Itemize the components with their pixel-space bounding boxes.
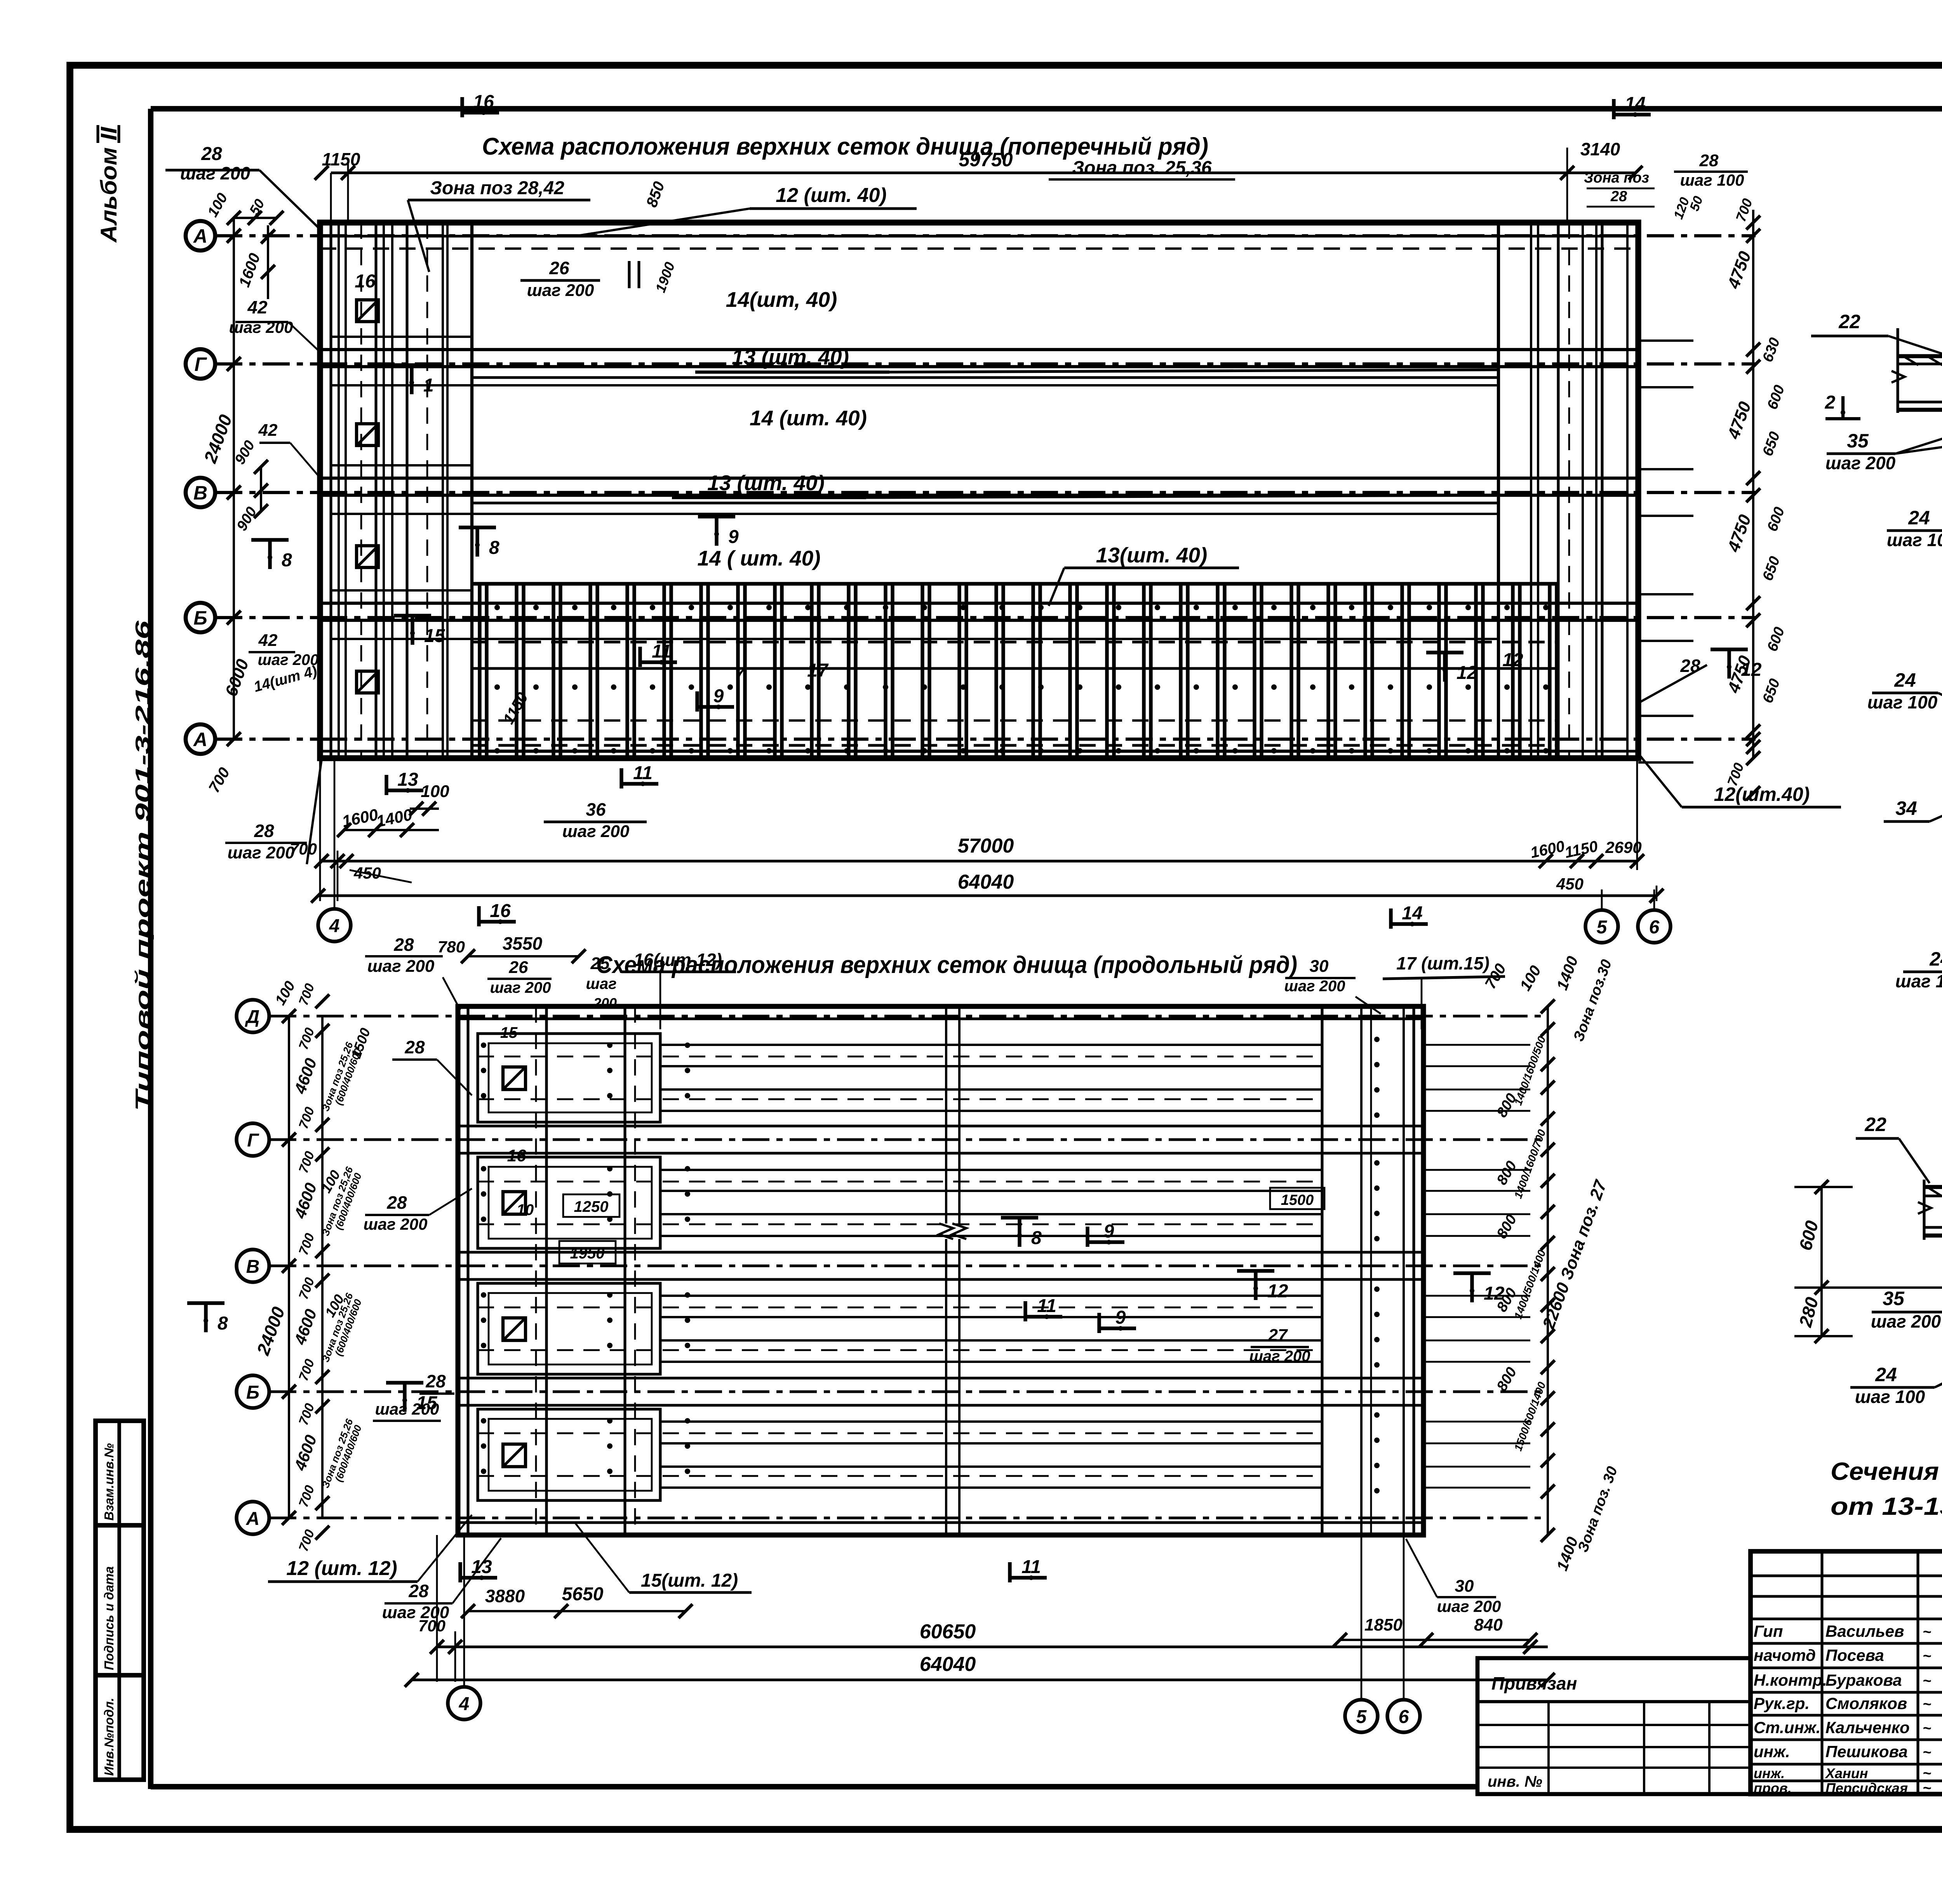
svg-text:11: 11 [652,641,671,662]
svg-text:28: 28 [425,1371,446,1391]
svg-text:3140: 3140 [1580,139,1620,159]
svg-text:Схема расположения верхних: Схема расположения верхних сеток днища (… [482,133,1208,160]
svg-text:28: 28 [1699,151,1719,170]
svg-text:В: В [193,482,207,504]
svg-text:начотд: начотд [1754,1646,1816,1664]
svg-text:14: 14 [1402,903,1422,924]
svg-text:Д: Д [245,1007,260,1027]
svg-text:13(шт. 40): 13(шт. 40) [1096,543,1208,567]
svg-text:5: 5 [1356,1707,1367,1727]
svg-text:5650: 5650 [562,1584,604,1605]
svg-text:1: 1 [423,375,434,396]
svg-text:700: 700 [290,840,317,858]
svg-text:13: 13 [471,1557,492,1577]
svg-text:~: ~ [1923,1744,1931,1761]
svg-text:42: 42 [258,631,278,650]
svg-text:57000: 57000 [958,835,1014,857]
svg-text:14 ( шт. 40): 14 ( шт. 40) [697,546,820,570]
svg-text:шаг 200: шаг 200 [228,843,295,862]
svg-text:2: 2 [1825,392,1836,413]
svg-text:11: 11 [633,763,653,783]
svg-text:~: ~ [1923,1720,1931,1737]
svg-text:инж.: инж. [1754,1765,1785,1781]
svg-text:17 (шт.15): 17 (шт.15) [1396,953,1490,973]
svg-text:Н.контр.: Н.контр. [1754,1671,1827,1689]
svg-text:28: 28 [254,821,274,841]
svg-text:3550: 3550 [503,933,543,954]
svg-text:Буракова: Буракова [1825,1671,1902,1689]
svg-text:12: 12 [1502,650,1523,670]
svg-text:~: ~ [1923,1780,1931,1796]
svg-text:~: ~ [1923,1648,1931,1664]
svg-text:28: 28 [1610,188,1627,205]
svg-text:~: ~ [1923,1765,1931,1782]
svg-text:13 (шт. 40): 13 (шт. 40) [707,471,825,495]
svg-text:30: 30 [1455,1577,1474,1596]
svg-text:200: 200 [593,995,617,1011]
svg-text:Рук.гр.: Рук.гр. [1754,1694,1810,1713]
svg-text:Васильев: Васильев [1825,1622,1904,1640]
svg-text:Кальченко: Кальченко [1825,1718,1910,1737]
svg-text:2690: 2690 [1605,838,1641,856]
svg-text:~: ~ [1923,1624,1931,1640]
svg-text:60650: 60650 [920,1620,976,1643]
svg-text:Б: Б [193,607,207,629]
svg-text:инж.: инж. [1754,1742,1790,1761]
svg-text:Зона поз: Зона поз [1584,170,1649,186]
bottom plan right chain [1547,1006,1549,1535]
svg-text:16: 16 [473,92,494,112]
svg-text:шаг 200: шаг 200 [375,1400,439,1418]
svg-text:12(шт.40): 12(шт.40) [1714,783,1810,805]
svg-text:100: 100 [421,782,449,801]
svg-text:шаг 200: шаг 200 [562,822,630,841]
svg-text:шаг 100: шаг 100 [1680,171,1744,189]
svg-text:24: 24 [1929,948,1942,970]
svg-text:шаг: шаг [586,975,616,992]
svg-text:22: 22 [1838,311,1860,332]
svg-text:Пешикова: Пешикова [1825,1742,1908,1761]
svg-text:12 (шт. 12): 12 (шт. 12) [286,1557,397,1580]
svg-text:Ханин: Ханин [1825,1765,1868,1781]
svg-text:14(шт, 40): 14(шт, 40) [726,287,837,312]
svg-text:А: А [246,1509,260,1529]
svg-text:9: 9 [1104,1221,1114,1242]
svg-text:шаг 100: шаг 100 [1895,971,1942,991]
svg-text:16(шт 12): 16(шт 12) [633,950,722,970]
svg-text:4: 4 [329,916,340,936]
svg-text:А: А [193,225,207,247]
svg-text:шаг 200: шаг 200 [1871,1311,1941,1331]
svg-text:В: В [246,1257,260,1277]
svg-text:8: 8 [489,538,499,558]
svg-text:Сечения от 8-8 до 12-12 с: Сечения от 8-8 до 12-12 смотреть на лист… [1831,1457,1942,1485]
svg-text:28: 28 [386,1192,407,1213]
svg-text:Б: Б [246,1382,259,1403]
svg-text:24: 24 [1894,669,1916,691]
svg-text:28: 28 [393,935,414,955]
svg-text:шаг 200: шаг 200 [490,979,551,996]
svg-text:12 (шт. 40): 12 (шт. 40) [776,184,886,207]
svg-text:1150: 1150 [322,149,360,169]
svg-text:26: 26 [549,258,569,278]
svg-text:24: 24 [1875,1364,1897,1385]
svg-text:28: 28 [408,1581,429,1601]
svg-text:16: 16 [355,271,376,292]
top plan right chain [1752,210,1754,757]
svg-text:11: 11 [1037,1296,1056,1316]
svg-text:шаг 200: шаг 200 [527,281,594,300]
svg-text:Зона поз 28,42: Зона поз 28,42 [430,178,564,198]
svg-text:16: 16 [490,901,511,921]
svg-text:28: 28 [1680,656,1700,676]
svg-text:11: 11 [1021,1557,1041,1577]
svg-text:12: 12 [1456,663,1477,683]
svg-text:36: 36 [586,799,606,820]
svg-text:12: 12 [1741,660,1762,680]
svg-text:26: 26 [509,958,528,977]
svg-text:30: 30 [1310,957,1329,976]
svg-text:Инв.№подл.: Инв.№подл. [102,1698,116,1776]
svg-text:27: 27 [1268,1326,1288,1345]
svg-text:Гип: Гип [1754,1622,1783,1640]
svg-text:Г: Г [195,353,207,375]
svg-text:1950: 1950 [570,1245,605,1262]
svg-text:инв. №: инв. № [1488,1773,1542,1790]
svg-text:1250: 1250 [574,1198,609,1215]
svg-text:35: 35 [1883,1288,1905,1309]
mesh [478,584,481,758]
svg-text:10: 10 [517,1201,534,1218]
svg-text:15(шт. 12): 15(шт. 12) [641,1570,738,1591]
svg-text:6: 6 [1649,917,1660,938]
svg-text:шаг 200: шаг 200 [1825,453,1896,473]
bottom plan [237,1000,269,1032]
svg-text:Альбом II: Альбом II [96,126,122,243]
svg-text:7: 7 [735,664,746,683]
svg-text:700: 700 [418,1617,445,1635]
svg-text:Типовой проект 901-3-216.86: Типовой проект 901-3-216.86 [132,620,154,1111]
svg-text:35: 35 [1847,430,1869,452]
title block [1751,1551,1942,1794]
svg-text:9: 9 [728,527,739,547]
svg-text:15: 15 [424,626,445,646]
svg-text:~: ~ [1923,1696,1931,1713]
svg-text:25: 25 [590,954,610,973]
svg-text:Персидская: Персидская [1825,1780,1908,1796]
svg-text:шаг 200: шаг 200 [364,1215,428,1233]
svg-text:Подпись и дата: Подпись и дата [102,1566,116,1671]
svg-text:3880: 3880 [485,1586,525,1606]
top plan [186,221,215,251]
svg-text:24: 24 [1908,507,1930,529]
svg-text:42: 42 [258,421,278,440]
svg-text:Г: Г [247,1130,259,1151]
svg-text:6: 6 [1399,1707,1409,1727]
svg-text:13: 13 [397,769,418,790]
svg-text:~: ~ [1923,1673,1931,1689]
svg-text:8: 8 [1031,1228,1042,1248]
svg-text:780: 780 [438,938,465,956]
svg-text:22: 22 [1864,1114,1886,1135]
svg-text:840: 840 [1474,1615,1503,1634]
svg-text:Посева: Посева [1825,1646,1884,1664]
svg-text:шаг 100: шаг 100 [1855,1387,1925,1407]
svg-text:9: 9 [1115,1307,1126,1328]
svg-text:15: 15 [500,1024,518,1041]
svg-text:Ст.инж.: Ст.инж. [1754,1718,1820,1737]
svg-text:шаг 200: шаг 200 [180,163,251,183]
svg-text:17: 17 [807,660,829,681]
svg-text:34: 34 [1895,797,1917,819]
svg-text:шаг 100: шаг 100 [1887,530,1942,550]
svg-text:Зона поз. 25,36: Зона поз. 25,36 [1072,158,1211,178]
svg-text:шаг 200: шаг 200 [1284,978,1345,995]
svg-text:14: 14 [1625,94,1645,114]
svg-text:Взам.инв.№: Взам.инв.№ [102,1443,116,1521]
svg-text:64040: 64040 [958,871,1014,893]
svg-text:64040: 64040 [920,1653,976,1676]
svg-text:шаг 200: шаг 200 [1437,1597,1501,1615]
svg-text:8: 8 [218,1313,228,1334]
top plan bottom dims [385,775,388,795]
svg-text:8: 8 [282,550,292,571]
svg-text:9: 9 [713,686,724,707]
svg-text:шаг 200: шаг 200 [367,957,435,976]
svg-text:1850: 1850 [1364,1615,1403,1634]
svg-text:28: 28 [404,1037,425,1057]
svg-text:А: А [193,729,207,750]
svg-text:пров.: пров. [1754,1780,1792,1796]
svg-text:4: 4 [459,1694,470,1714]
svg-text:28: 28 [201,144,222,164]
svg-text:14 (шт. 40): 14 (шт. 40) [750,406,867,430]
svg-text:шаг 100: шаг 100 [1867,692,1938,712]
svg-text:12: 12 [1267,1281,1288,1302]
svg-text:шаг 200: шаг 200 [1249,1348,1310,1365]
svg-text:450: 450 [1556,875,1584,893]
svg-text:13 (шт. 40): 13 (шт. 40) [732,345,849,369]
svg-text:5: 5 [1597,917,1608,938]
svg-text:Привязан: Привязан [1491,1673,1577,1693]
svg-text:1500: 1500 [1281,1192,1314,1208]
top dims [460,97,464,117]
svg-text:16: 16 [507,1146,526,1165]
svg-text:42: 42 [247,297,268,317]
svg-text:Смоляков: Смоляков [1825,1694,1907,1713]
svg-text:от 13-13 до 17-17 на л: от 13-13 до 17-17 на листе 42. [1831,1492,1942,1520]
